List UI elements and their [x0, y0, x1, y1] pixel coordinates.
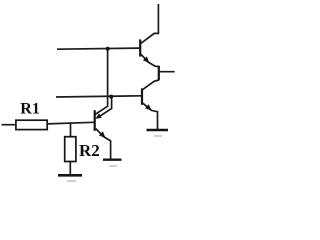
svg-text:R1: R1 [20, 101, 40, 118]
svg-text:R2: R2 [79, 141, 100, 160]
